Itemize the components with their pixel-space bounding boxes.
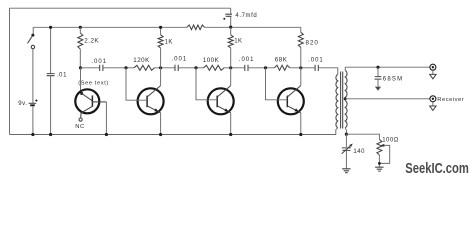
- capacitor C4 4.7mfd: [223, 8, 232, 27]
- svg-text:4.7mfd: 4.7mfd: [235, 13, 257, 19]
- resistor R7 68K: [274, 65, 289, 70]
- terminal J2 (receiver): [430, 96, 436, 106]
- wire: bottom ground bus: [10, 130, 336, 135]
- transistor Q1 (See text): [75, 89, 106, 118]
- node: rail/R1 junction: [79, 26, 82, 29]
- svg-text:(See text): (See text): [78, 81, 109, 87]
- wire: Q3 emitter to bus: [230, 113, 232, 135]
- node: Q2 emitter/bus junction: [159, 133, 162, 136]
- ground (J1): [430, 74, 436, 78]
- node: R8/Q4 collector junction: [299, 66, 302, 69]
- capacitor C5 .001: [245, 65, 248, 71]
- node: battery/bus junction: [31, 133, 34, 136]
- node: Q1 collector/bus junction: [105, 133, 108, 136]
- wire: secondary tap lead: [344, 97, 346, 100]
- node: rail/R3 junction: [159, 26, 162, 29]
- wire: Q2 collector: [160, 68, 162, 86]
- node: secondary tap: [344, 97, 347, 100]
- node: Q4 emitter/bus junction: [299, 133, 302, 136]
- node: rail/C4/R6 junction: [229, 26, 232, 29]
- wire: secondary top lead: [344, 67, 346, 70]
- wire: signal segment 3: [155, 67, 175, 69]
- ground (C7): [375, 87, 381, 91]
- svg-text:140: 140: [353, 149, 365, 155]
- svg-text:1K: 1K: [165, 40, 173, 46]
- wire: V+ rail left segment: [33, 26, 187, 28]
- wire: left vertical (battery negative to bus): [9, 8, 11, 134]
- svg-text:1K: 1K: [234, 39, 242, 45]
- svg-text:.001: .001: [239, 57, 255, 63]
- wire: signal segment 7: [290, 67, 315, 69]
- svg-text:2.2K: 2.2K: [84, 38, 99, 45]
- wire: Q4 emitter to bus: [300, 113, 302, 135]
- wire: junction to Q1 base: [80, 68, 82, 92]
- svg-text:Receiver: Receiver: [437, 97, 464, 103]
- terminal NC (Q1 emitter): [79, 118, 82, 121]
- svg-text:120K: 120K: [133, 57, 150, 64]
- resistor R2 120K: [134, 65, 155, 70]
- transformer T1 primary: [336, 74, 338, 128]
- node: secondary bottom junction: [345, 133, 348, 136]
- svg-text:9v.: 9v.: [18, 101, 27, 107]
- node: R9 wiper/bottom junction: [378, 162, 381, 165]
- wire: Q3 collector: [230, 68, 232, 86]
- switch S1: [28, 27, 35, 48]
- capacitor C3 .001: [175, 65, 178, 71]
- wire: junction down to C8: [345, 134, 347, 147]
- capacitor C2 .001: [100, 65, 103, 71]
- svg-text:.001: .001: [172, 57, 188, 63]
- ground (J2): [430, 106, 436, 110]
- transformer T1 secondary upper: [345, 70, 347, 97]
- ground (R9): [375, 167, 384, 171]
- resistor R1 2.2K: [78, 27, 83, 68]
- svg-text:SeekIC.com: SeekIC.com: [405, 161, 469, 177]
- wire: signal segment 1: [81, 67, 100, 69]
- wire: signal segment 6: [248, 67, 274, 69]
- wire: Q4 collector: [300, 68, 302, 86]
- wire: signal segment 2: [103, 67, 134, 69]
- wire: junction to R9: [346, 134, 379, 139]
- wire: top ground return: [10, 7, 231, 9]
- node: Q2 base drop: [124, 66, 127, 69]
- wire: battery to bus: [32, 106, 34, 134]
- wire: Q3 base: [196, 68, 217, 100]
- resistor R4 100K: [204, 65, 225, 70]
- svg-text:100Ω: 100Ω: [382, 138, 399, 144]
- wire: signal segment 4: [178, 67, 203, 69]
- svg-text:NC: NC: [75, 124, 84, 130]
- potentiometer R9 100ohm: [377, 139, 390, 167]
- wire: Q4 base: [266, 68, 288, 100]
- capacitor C7 68SM: [375, 67, 382, 86]
- node: C7 junction: [376, 66, 379, 69]
- resistor R8 820: [298, 27, 303, 68]
- node: C1/bus junction: [49, 133, 52, 136]
- terminal J1 (antenna): [430, 64, 436, 74]
- transformer T1 core: [341, 72, 343, 129]
- wire: C1 to bus: [50, 76, 52, 135]
- resistor R6 1K: [228, 27, 233, 68]
- node: Q3 base drop: [194, 66, 197, 69]
- svg-text:68K: 68K: [275, 57, 288, 64]
- resistor R3 1K: [158, 27, 163, 68]
- capacitor C6 .001: [315, 65, 318, 71]
- node: rail/C1 junction: [49, 26, 52, 29]
- resistor R5 (rail decoupling, unlabeled): [187, 25, 205, 30]
- svg-text:.001: .001: [91, 59, 107, 65]
- transistor Q4: [278, 86, 304, 115]
- svg-text:.001: .001: [308, 58, 324, 64]
- svg-text:68SM: 68SM: [383, 77, 403, 83]
- wire: Q1 collector to bus: [105, 102, 107, 135]
- battery B1 9v: [29, 99, 38, 105]
- svg-text:100K: 100K: [203, 57, 220, 64]
- wire: Q2 base: [126, 68, 147, 100]
- wire: signal to transformer primary: [318, 68, 337, 75]
- node: R6/C5 junction: [229, 66, 232, 69]
- transformer T1 secondary lower: [345, 101, 347, 128]
- wire: secondary tap to receiver terminal: [345, 98, 430, 100]
- variable capacitor C8 140: [342, 144, 353, 169]
- wire: signal segment 5: [224, 67, 244, 69]
- wire: switch to battery: [32, 49, 34, 103]
- wire: Q2 emitter to bus: [160, 113, 162, 135]
- transistor Q2: [138, 86, 164, 115]
- node: R1/signal junction: [79, 66, 82, 69]
- wire: secondary bottom lead: [345, 128, 346, 134]
- node: Q4 base drop: [264, 66, 267, 69]
- svg-text:.01: .01: [57, 73, 68, 79]
- transistor Q3: [208, 86, 234, 115]
- node: Q3 emitter/bus junction: [229, 133, 232, 136]
- wire: V+ rail right segment: [205, 26, 301, 28]
- capacitor C1 .01: [47, 74, 55, 76]
- wire: secondary top to antenna terminal: [345, 66, 430, 68]
- node: R3/C3 junction: [159, 66, 162, 69]
- ground (C8): [342, 169, 351, 173]
- wire: primary bottom to bus: [336, 128, 338, 130]
- svg-text:820: 820: [306, 40, 319, 47]
- wire: rail to C1: [50, 27, 52, 73]
